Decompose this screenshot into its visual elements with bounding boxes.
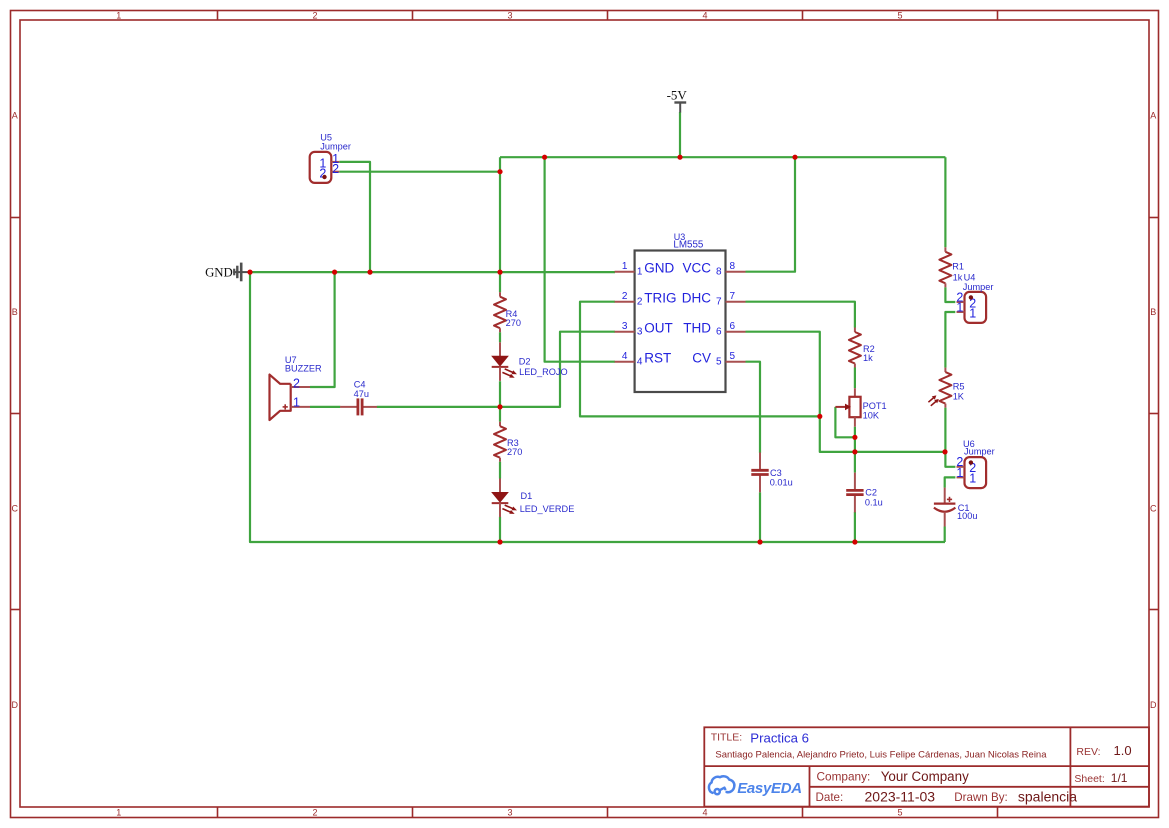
svg-text:A: A [1150, 111, 1156, 121]
svg-text:5: 5 [897, 10, 902, 20]
svg-text:BUZZER: BUZZER [285, 363, 322, 373]
svg-text:1: 1 [116, 808, 121, 818]
svg-text:4: 4 [702, 808, 707, 818]
svg-text:REV:: REV: [1076, 746, 1100, 758]
svg-text:Jumper: Jumper [964, 447, 995, 457]
svg-text:100u: 100u [957, 511, 977, 521]
svg-text:C2: C2 [865, 488, 877, 498]
svg-text:GND: GND [205, 266, 233, 280]
svg-text:270: 270 [507, 447, 522, 457]
svg-text:Sheet:: Sheet: [1074, 773, 1104, 785]
svg-text:D: D [12, 700, 19, 710]
svg-text:3: 3 [637, 326, 643, 337]
svg-text:3: 3 [622, 321, 628, 332]
svg-text:2: 2 [332, 162, 339, 176]
svg-text:6: 6 [730, 321, 736, 332]
svg-text:Practica 6: Practica 6 [750, 730, 809, 745]
svg-text:4: 4 [637, 356, 643, 367]
svg-text:THD: THD [683, 320, 711, 335]
svg-text:3: 3 [507, 808, 512, 818]
svg-text:1: 1 [969, 472, 976, 486]
svg-text:C: C [1150, 504, 1157, 514]
svg-text:TITLE:: TITLE: [711, 731, 743, 743]
svg-text:2: 2 [312, 10, 317, 20]
svg-text:LED_VERDE: LED_VERDE [520, 504, 575, 514]
svg-text:2: 2 [622, 291, 628, 302]
svg-text:2: 2 [293, 376, 300, 390]
svg-text:2: 2 [312, 808, 317, 818]
svg-text:3: 3 [507, 10, 512, 20]
svg-text:4: 4 [622, 351, 628, 362]
svg-text:B: B [12, 307, 18, 317]
svg-text:D2: D2 [519, 357, 531, 367]
svg-text:270: 270 [506, 318, 521, 328]
svg-text:OUT: OUT [644, 320, 673, 335]
svg-text:1k: 1k [863, 353, 873, 363]
svg-text:0.01u: 0.01u [770, 478, 793, 488]
svg-text:C4: C4 [354, 379, 366, 389]
svg-text:2: 2 [637, 296, 643, 307]
svg-text:1: 1 [622, 261, 628, 272]
svg-text:EasyEDA: EasyEDA [737, 780, 802, 797]
svg-text:R5: R5 [953, 382, 965, 392]
svg-text:VCC: VCC [682, 260, 711, 275]
svg-text:LED_ROJO: LED_ROJO [519, 367, 568, 377]
svg-text:TRIG: TRIG [644, 290, 676, 305]
svg-text:7: 7 [730, 291, 736, 302]
svg-text:7: 7 [716, 296, 722, 307]
svg-text:1: 1 [116, 10, 121, 20]
svg-text:8: 8 [730, 261, 736, 272]
svg-text:47u: 47u [354, 389, 369, 399]
svg-text:1: 1 [969, 306, 976, 320]
svg-text:Company:: Company: [817, 769, 871, 783]
svg-text:10K: 10K [863, 410, 880, 420]
svg-text:DHC: DHC [682, 290, 711, 305]
svg-text:Drawn By:: Drawn By: [954, 791, 1007, 804]
svg-text:4: 4 [702, 10, 707, 20]
svg-text:B: B [1150, 307, 1156, 317]
svg-text:1: 1 [637, 266, 643, 277]
svg-text:Date:: Date: [816, 791, 844, 804]
svg-text:5: 5 [716, 356, 722, 367]
svg-text:CV: CV [692, 350, 711, 365]
svg-text:R1: R1 [952, 261, 964, 271]
svg-text:Jumper: Jumper [963, 282, 994, 292]
svg-text:5: 5 [897, 808, 902, 818]
svg-text:A: A [12, 111, 18, 121]
svg-text:1.0: 1.0 [1114, 743, 1132, 758]
svg-text:2023-11-03: 2023-11-03 [865, 789, 936, 805]
svg-text:1K: 1K [953, 391, 965, 401]
svg-text:5: 5 [730, 351, 736, 362]
svg-text:C: C [12, 504, 19, 514]
svg-text:1k: 1k [953, 273, 963, 283]
svg-text:1: 1 [956, 300, 963, 314]
svg-text:-5V: -5V [667, 88, 688, 103]
svg-text:Jumper: Jumper [320, 142, 351, 152]
svg-text:D1: D1 [521, 491, 533, 501]
svg-text:D: D [1150, 700, 1157, 710]
svg-text:1/1: 1/1 [1111, 771, 1128, 785]
svg-text:1: 1 [293, 396, 300, 410]
svg-text:6: 6 [716, 326, 722, 337]
svg-text:LM555: LM555 [673, 240, 704, 251]
svg-text:0.1u: 0.1u [865, 498, 883, 508]
svg-text:GND: GND [644, 260, 674, 275]
svg-text:spalencia: spalencia [1018, 789, 1077, 805]
svg-text:1: 1 [956, 466, 963, 480]
svg-text:Santiago Palencia, Alejandro P: Santiago Palencia, Alejandro Prieto, Lui… [715, 750, 1047, 761]
svg-text:RST: RST [644, 350, 671, 365]
svg-text:C3: C3 [770, 468, 782, 478]
svg-text:Your Company: Your Company [881, 769, 969, 784]
svg-text:8: 8 [716, 266, 722, 277]
